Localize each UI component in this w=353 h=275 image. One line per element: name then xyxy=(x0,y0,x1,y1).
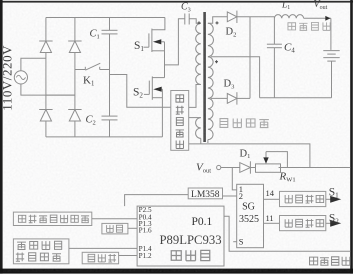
wire LM358 to SG3525 pin2 xyxy=(223,195,237,197)
label microcontroller (dan pian ji) xyxy=(171,250,210,260)
wire power sensor to MCU xyxy=(69,247,137,249)
wire pin14 to driver1 xyxy=(264,198,280,200)
wire S2 source down to bottom rail xyxy=(161,89,163,137)
isolated driver box 2 (ge li qu dong) xyxy=(280,216,326,231)
wire CT output line xyxy=(189,144,310,168)
wire output bottom rail xyxy=(260,97,332,99)
wire S1 source / S2 drain node xyxy=(164,42,166,78)
pin P1.3 label xyxy=(139,220,152,228)
wire D2-D3 junction vertical xyxy=(249,17,251,99)
wire keypad to MCU xyxy=(128,227,137,229)
pin 1 label xyxy=(239,184,243,194)
wire Vout to D1 xyxy=(221,167,240,169)
wire P0.1 to shutdown line xyxy=(224,216,350,251)
wire AC top to bridge xyxy=(21,58,46,71)
PWM controller SG3525 box xyxy=(237,184,264,247)
wire battery to bottom rail xyxy=(331,61,333,98)
arrow to S2 xyxy=(326,220,341,227)
wire center tap xyxy=(211,57,260,98)
label L1 xyxy=(281,0,290,11)
terminal Vout xyxy=(217,165,221,169)
label C2 xyxy=(86,115,96,127)
op-amp LM358 box xyxy=(188,188,222,200)
label C4 xyxy=(284,42,295,55)
transformer primary lower winding xyxy=(196,118,201,139)
label current sampling (dian liu cai yang) xyxy=(310,257,350,266)
pin P1.6 label xyxy=(139,227,152,235)
pin P1.4 label xyxy=(139,245,152,253)
wire pin11 to driver2 xyxy=(264,222,280,224)
label 110V/220V xyxy=(0,45,15,111)
wire LM358 to MCU xyxy=(125,195,189,207)
label C3 xyxy=(181,2,191,14)
transformer secondary winding 2 xyxy=(208,57,213,99)
wire bridge mid xyxy=(46,94,75,96)
keypad box (jian pan) xyxy=(102,223,128,234)
pin P2.5 label xyxy=(139,206,152,214)
diode bridge top-left xyxy=(39,41,52,53)
wire top rail xyxy=(46,17,165,19)
transformer primary upper winding xyxy=(196,23,201,84)
battery xyxy=(323,51,339,62)
pin P0.1 label xyxy=(192,216,213,228)
node dot secondary top xyxy=(216,21,219,24)
pin S label xyxy=(233,237,244,247)
label D2 xyxy=(226,27,237,39)
transformer core xyxy=(203,12,206,142)
wire L1 to Vout corner xyxy=(304,16,331,21)
pin 11 label xyxy=(266,213,274,223)
wire bridge right leg xyxy=(74,18,76,137)
transistor S2 xyxy=(144,76,165,99)
arrow to S1 xyxy=(326,196,341,203)
wire Vout node to SG3525 pin1 xyxy=(232,168,236,190)
label S1 xyxy=(134,40,144,53)
capacitor C2 xyxy=(102,116,118,137)
inductor L1 xyxy=(274,15,303,19)
diode bridge bottom-right xyxy=(68,110,81,122)
AC source 110V/220V xyxy=(14,71,27,84)
label K1 xyxy=(83,75,94,88)
label D3 xyxy=(224,79,235,91)
label C1 xyxy=(90,29,100,41)
wire AC bottom to bridge xyxy=(21,84,75,95)
label SG 3525 xyxy=(239,201,259,225)
label S1 drive xyxy=(329,186,339,199)
wire bottom rail xyxy=(46,136,162,138)
diode D2 xyxy=(227,11,237,23)
battery temperature sensor box xyxy=(13,212,91,225)
diode D3 xyxy=(227,92,237,104)
label expandable port (ke kuo zhan duan) xyxy=(220,118,269,127)
diode D1 xyxy=(240,161,251,173)
wire battery sensor to MCU xyxy=(92,218,137,220)
wire node M to C3 xyxy=(165,19,185,65)
wire bridge left leg xyxy=(45,18,47,137)
wire primary lower stub xyxy=(200,138,202,144)
label S2 xyxy=(133,87,143,100)
buzzer box (feng ming qi) xyxy=(82,252,118,263)
label Vout top xyxy=(314,0,328,11)
wire pot output to right border xyxy=(279,167,351,169)
diode bridge top-right xyxy=(68,41,81,53)
capacitor C3 xyxy=(185,14,201,25)
potentiometer RW1 xyxy=(256,152,288,173)
wire D3 cathode xyxy=(237,97,250,99)
microcontroller P89LPC933 box xyxy=(137,206,224,266)
label Vout bottom xyxy=(196,161,211,174)
pin 14 label xyxy=(266,188,275,198)
label P89LPC933 xyxy=(160,233,222,247)
power tube temperature sensor box xyxy=(13,239,69,264)
wire CT box to primary lower xyxy=(189,117,201,119)
label S2 drive xyxy=(329,212,339,225)
capacitor C1 xyxy=(102,18,118,117)
wire D2 cathode line xyxy=(237,16,275,18)
label voltage sampling (dian ya cai yang) xyxy=(288,22,330,30)
node dot secondary mid xyxy=(215,60,218,63)
node dot primary xyxy=(198,21,201,24)
wire Vout down to battery xyxy=(330,18,332,50)
diode bridge bottom-left xyxy=(39,110,52,122)
pin P1.2 label xyxy=(139,252,152,260)
wire cap midpoint to CT box xyxy=(110,75,171,108)
capacitor C4 xyxy=(267,17,282,98)
switch K1 xyxy=(75,63,110,70)
wire secondary top lead xyxy=(208,17,227,24)
isolated driver box 1 (ge li qu dong) xyxy=(280,191,326,206)
label D1 xyxy=(240,148,251,160)
wire buzzer to MCU xyxy=(119,255,138,257)
wire D3 anode xyxy=(211,97,227,99)
transformer secondary winding 1 xyxy=(208,23,214,56)
pin P0.4 label xyxy=(139,214,152,222)
transistor S1 xyxy=(144,18,165,53)
transformer secondary winding 3 (expandable) xyxy=(208,98,213,143)
pin 2 label xyxy=(239,191,243,201)
current transformer box (dian liu hu gan qi) xyxy=(171,91,189,151)
wire primary to CT box xyxy=(189,85,201,108)
wire D1 to pot xyxy=(250,167,255,169)
label RW1 xyxy=(279,171,296,184)
